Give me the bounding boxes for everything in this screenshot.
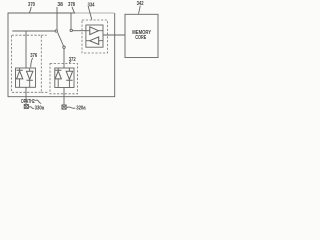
leader 376 xyxy=(31,58,33,67)
leader 330a xyxy=(29,107,34,109)
leader 378 xyxy=(72,7,74,13)
switch blade tip node xyxy=(63,46,65,48)
wire node to left clamp xyxy=(25,31,27,68)
svg-text:38: 38 xyxy=(57,2,63,8)
buffer left (bottom) xyxy=(90,37,99,45)
pad 320a xyxy=(62,105,66,109)
leader 334 xyxy=(88,7,92,20)
svg-text:DPATH2: DPATH2 xyxy=(21,99,35,105)
wire switch to buffer xyxy=(72,30,86,32)
memory core box 342 xyxy=(125,14,158,57)
wire top leader left contact xyxy=(56,7,58,30)
diode up (left branch 376) xyxy=(17,70,23,79)
clamp loop 376 xyxy=(16,68,36,87)
wire left clamp to pad xyxy=(25,87,27,104)
buffer block 334 xyxy=(86,25,103,47)
switch blade xyxy=(58,32,64,46)
outer block 370 xyxy=(8,13,115,97)
switch contact right xyxy=(70,29,72,31)
switch contact left xyxy=(55,30,57,32)
leader 342 xyxy=(139,6,141,14)
svg-text:378: 378 xyxy=(68,2,76,8)
diode down (right branch 376) xyxy=(27,71,33,80)
dashed stub top edge xyxy=(41,34,46,36)
wire right clamp to pad xyxy=(63,88,65,105)
leader 320a xyxy=(67,107,76,108)
wire DPATH2 horizontal xyxy=(12,30,55,32)
leader 372 xyxy=(69,61,71,63)
wire blade to right clamp xyxy=(63,48,65,68)
svg-text:342: 342 xyxy=(137,1,144,7)
dashed box 334 xyxy=(82,20,108,53)
dashed box 376 xyxy=(12,35,42,92)
svg-text:330a: 330a xyxy=(35,106,45,112)
leader DPATH2 xyxy=(35,100,41,103)
svg-text:376: 376 xyxy=(30,53,38,59)
dashed box 372 xyxy=(50,64,78,94)
diode up (left branch 372) xyxy=(55,70,61,79)
leader 370 xyxy=(30,7,32,13)
dashed stub bottom edge xyxy=(41,91,47,93)
clamp loop 372 xyxy=(55,68,74,88)
svg-text:CORE: CORE xyxy=(135,35,146,41)
wire buffer to memory core xyxy=(103,34,125,36)
svg-text:320a: 320a xyxy=(76,106,86,112)
diode down (right branch 372) xyxy=(66,71,72,80)
svg-text:334: 334 xyxy=(88,2,96,8)
svg-text:372: 372 xyxy=(69,57,76,63)
pad 330a xyxy=(24,104,28,108)
buffer right (top) xyxy=(90,27,99,35)
svg-text:370: 370 xyxy=(28,2,35,8)
wire top leader right contact xyxy=(70,13,72,29)
